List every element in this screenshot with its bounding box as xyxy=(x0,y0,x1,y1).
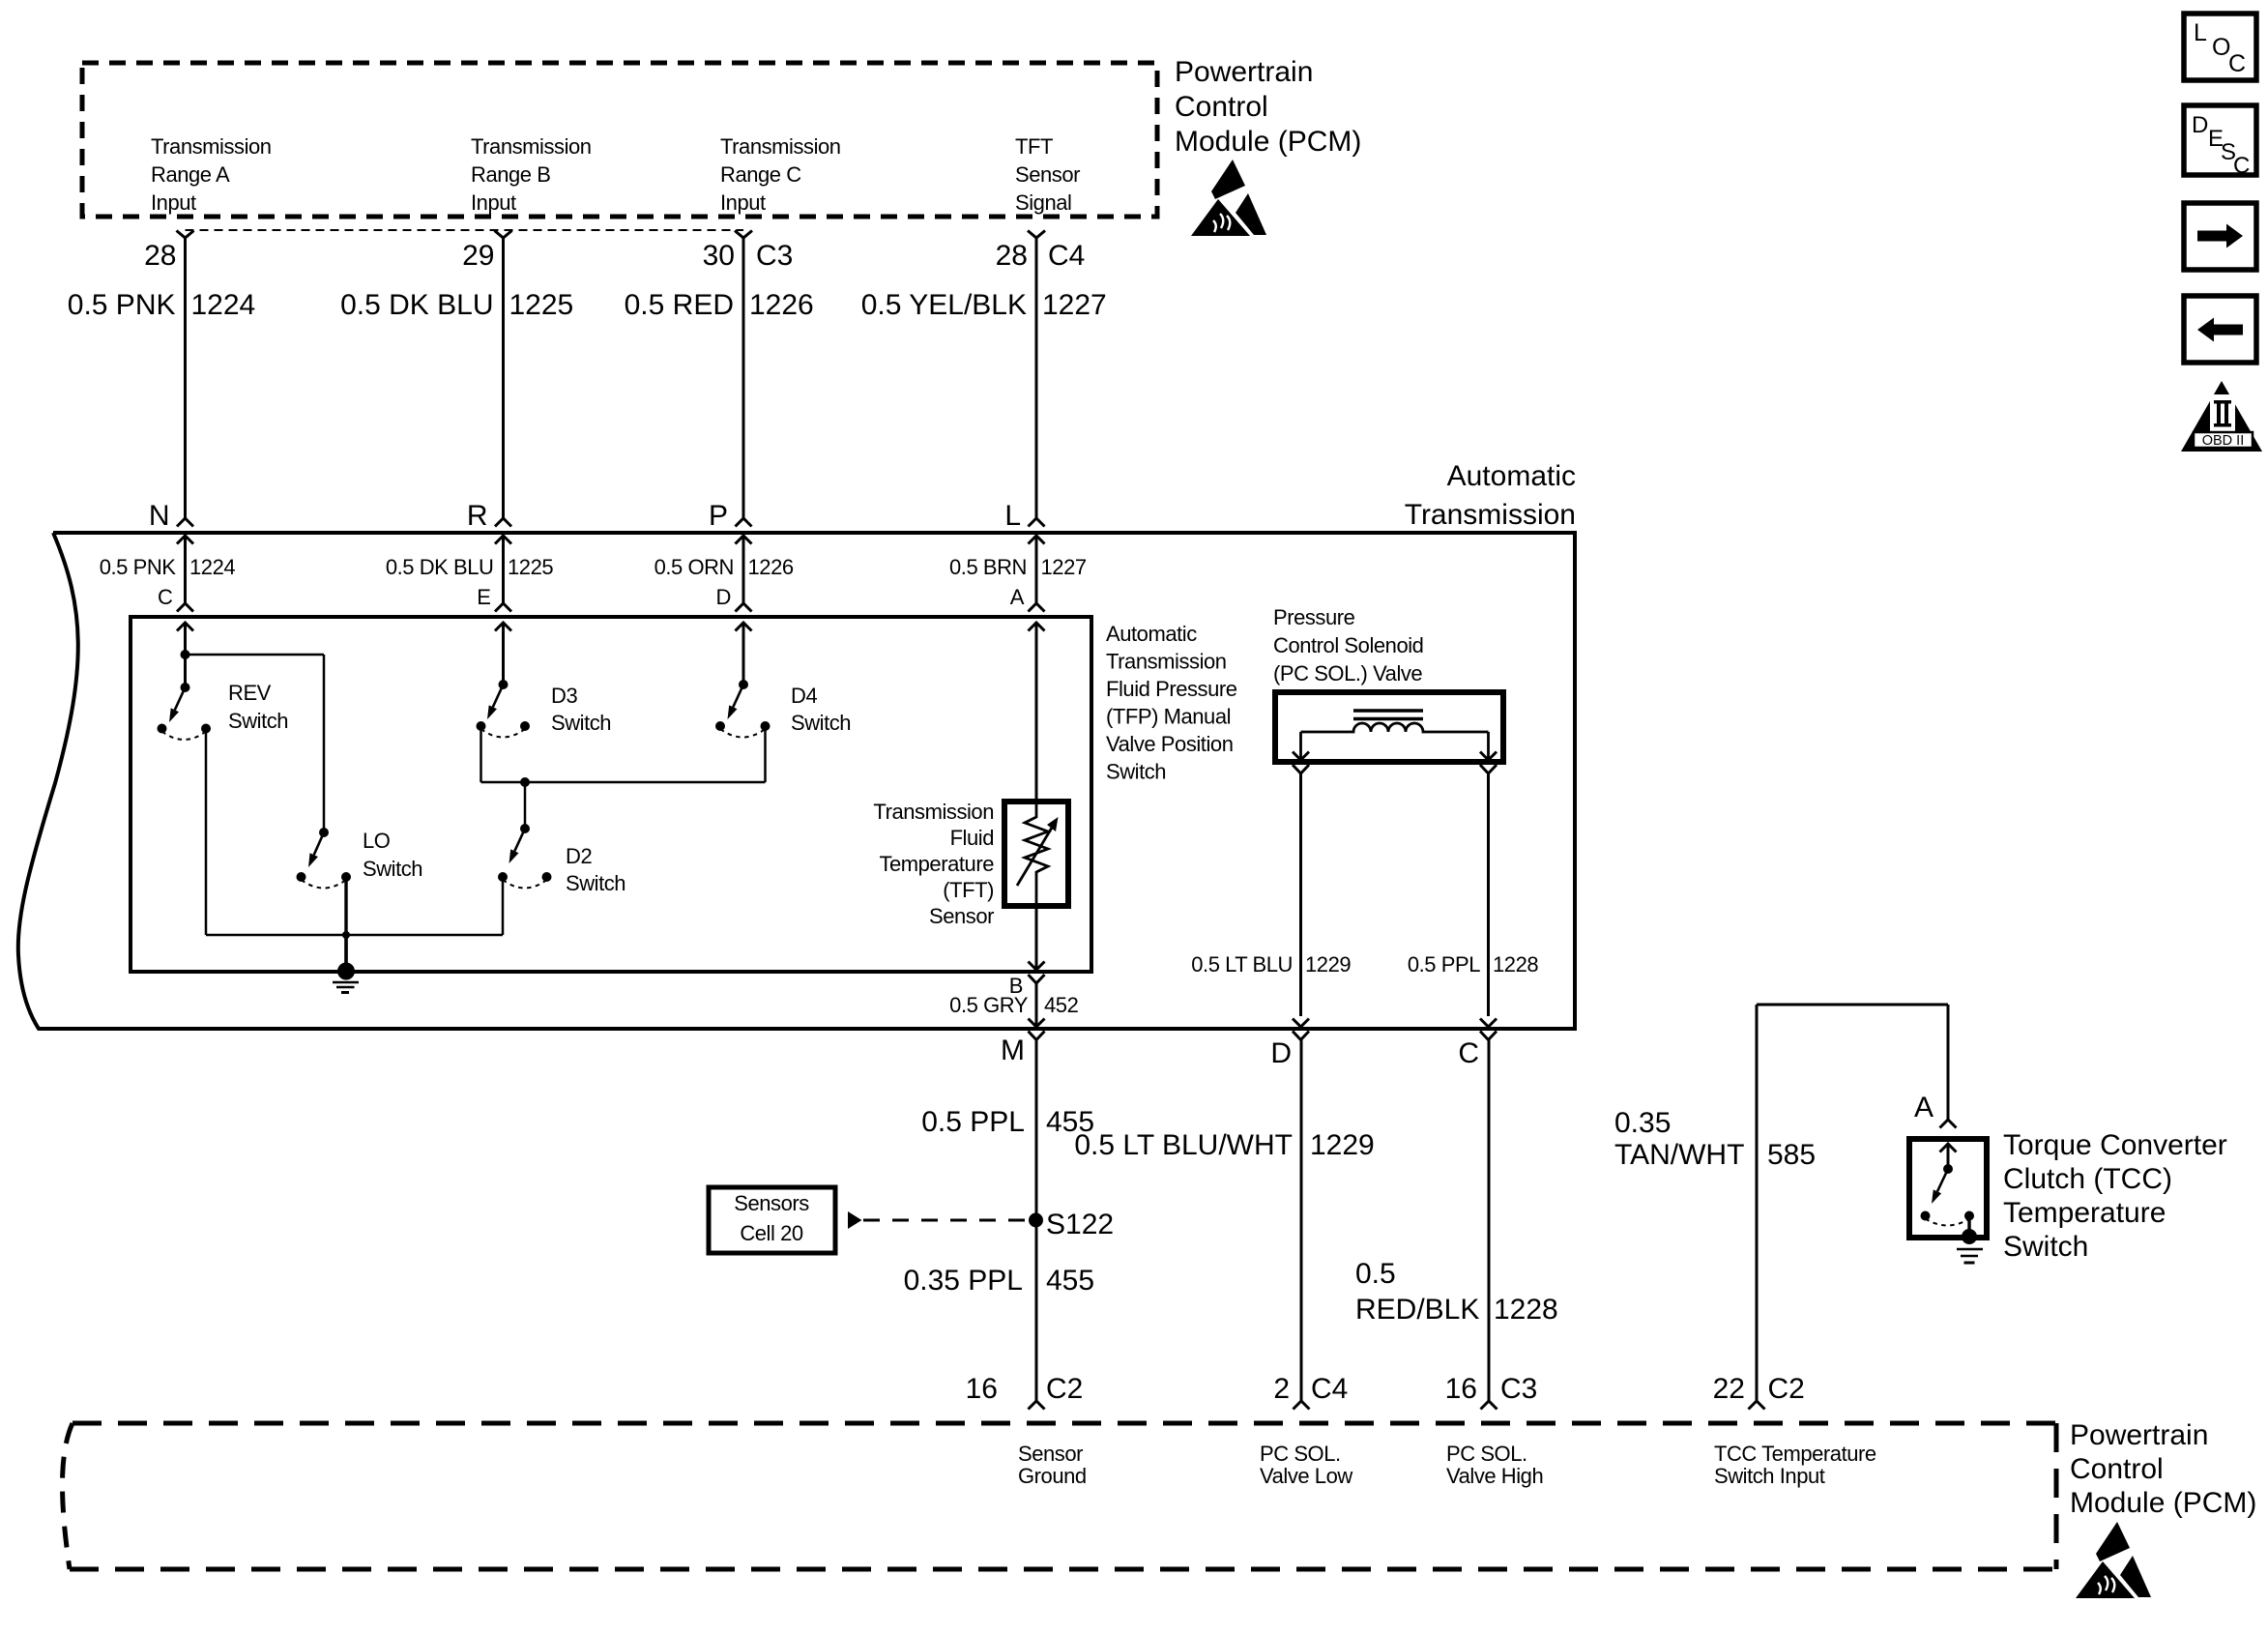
svg-text:N: N xyxy=(149,500,170,532)
svg-text:D: D xyxy=(716,585,731,609)
svg-text:C: C xyxy=(2233,153,2250,179)
svg-text:Input: Input xyxy=(471,190,516,215)
svg-text:30: 30 xyxy=(703,240,735,272)
svg-text:1228: 1228 xyxy=(1494,1294,1558,1326)
svg-text:S122: S122 xyxy=(1046,1209,1114,1240)
svg-text:1227: 1227 xyxy=(1042,289,1107,321)
svg-text:1227: 1227 xyxy=(1041,555,1087,579)
svg-text:R: R xyxy=(467,500,488,532)
svg-text:L: L xyxy=(2194,19,2207,46)
svg-text:Pressure: Pressure xyxy=(1273,605,1355,629)
svg-text:0.35: 0.35 xyxy=(1614,1107,1671,1139)
svg-text:A: A xyxy=(1010,585,1025,609)
svg-text:Input: Input xyxy=(720,190,766,215)
svg-text:Valve Position: Valve Position xyxy=(1106,732,1233,756)
svg-text:Switch: Switch xyxy=(2003,1231,2088,1263)
svg-text:Control: Control xyxy=(1175,91,1268,123)
svg-text:C: C xyxy=(1458,1037,1479,1069)
svg-text:TFT: TFT xyxy=(1015,134,1053,159)
svg-text:A: A xyxy=(1914,1092,1934,1123)
svg-text:Fluid: Fluid xyxy=(950,826,994,850)
svg-text:1225: 1225 xyxy=(508,555,553,579)
svg-text:0.5 PNK: 0.5 PNK xyxy=(68,289,176,321)
svg-text:Transmission: Transmission xyxy=(873,800,994,824)
svg-text:Range A: Range A xyxy=(151,162,230,187)
svg-text:Powertrain: Powertrain xyxy=(2070,1419,2208,1451)
svg-text:Torque Converter: Torque Converter xyxy=(2003,1129,2227,1161)
svg-text:29: 29 xyxy=(462,240,494,272)
svg-text:Switch: Switch xyxy=(791,711,851,735)
svg-text:0.5 ORN: 0.5 ORN xyxy=(654,555,734,579)
svg-text:Transmission: Transmission xyxy=(720,134,841,159)
svg-text:D: D xyxy=(1270,1037,1292,1069)
svg-text:28: 28 xyxy=(144,240,176,272)
svg-text:Transmission: Transmission xyxy=(151,134,272,159)
svg-text:Range C: Range C xyxy=(720,162,801,187)
svg-text:16: 16 xyxy=(1445,1373,1477,1405)
svg-text:C3: C3 xyxy=(1500,1373,1537,1405)
svg-text:Switch: Switch xyxy=(363,857,422,881)
svg-text:452: 452 xyxy=(1044,993,1079,1017)
svg-text:C3: C3 xyxy=(756,240,793,272)
svg-text:RED/BLK: RED/BLK xyxy=(1355,1294,1479,1326)
svg-text:Control: Control xyxy=(2070,1453,2164,1485)
svg-text:0.5: 0.5 xyxy=(1355,1258,1396,1290)
svg-text:1229: 1229 xyxy=(1310,1129,1375,1161)
svg-text:D3: D3 xyxy=(551,684,577,708)
svg-text:Fluid Pressure: Fluid Pressure xyxy=(1106,677,1237,701)
svg-text:TCC Temperature: TCC Temperature xyxy=(1714,1442,1876,1466)
svg-text:C2: C2 xyxy=(1768,1373,1805,1405)
svg-text:PC SOL.: PC SOL. xyxy=(1446,1442,1527,1466)
svg-text:TAN/WHT: TAN/WHT xyxy=(1614,1139,1744,1171)
svg-text:Valve High: Valve High xyxy=(1446,1464,1543,1488)
svg-text:Cell 20: Cell 20 xyxy=(740,1221,803,1245)
svg-text:Transmission: Transmission xyxy=(1106,650,1227,674)
svg-text:1228: 1228 xyxy=(1493,952,1538,977)
svg-text:455: 455 xyxy=(1046,1265,1094,1297)
svg-text:L: L xyxy=(1004,500,1021,532)
svg-text:C: C xyxy=(158,585,173,609)
svg-text:Sensors: Sensors xyxy=(734,1191,809,1215)
svg-text:Transmission: Transmission xyxy=(1405,499,1576,531)
svg-text:Range B: Range B xyxy=(471,162,550,187)
svg-text:0.35 PPL: 0.35 PPL xyxy=(904,1265,1023,1297)
svg-text:E: E xyxy=(477,585,490,609)
svg-text:(PC SOL.) Valve: (PC SOL.) Valve xyxy=(1273,661,1422,685)
svg-text:C2: C2 xyxy=(1046,1373,1083,1405)
svg-text:2: 2 xyxy=(1273,1373,1290,1405)
svg-text:1226: 1226 xyxy=(749,289,814,321)
svg-text:D: D xyxy=(2192,112,2208,138)
svg-text:Switch: Switch xyxy=(228,709,288,733)
svg-text:OBD II: OBD II xyxy=(2202,433,2245,449)
svg-text:D2: D2 xyxy=(566,844,592,868)
svg-text:0.5 GRY: 0.5 GRY xyxy=(949,993,1029,1017)
svg-text:28: 28 xyxy=(996,240,1028,272)
svg-text:LO: LO xyxy=(363,829,391,853)
svg-text:0.5 PNK: 0.5 PNK xyxy=(100,555,177,579)
svg-text:Switch: Switch xyxy=(551,711,611,735)
svg-text:Sensor: Sensor xyxy=(1018,1442,1083,1466)
svg-text:Signal: Signal xyxy=(1015,190,1071,215)
svg-text:Sensor: Sensor xyxy=(929,904,994,928)
svg-text:Sensor: Sensor xyxy=(1015,162,1080,187)
svg-text:0.5 PPL: 0.5 PPL xyxy=(1408,952,1480,977)
svg-text:Module (PCM): Module (PCM) xyxy=(1175,126,1361,158)
svg-text:Switch Input: Switch Input xyxy=(1714,1464,1825,1488)
svg-text:Temperature: Temperature xyxy=(879,852,994,876)
svg-text:PC SOL.: PC SOL. xyxy=(1260,1442,1341,1466)
svg-text:1229: 1229 xyxy=(1305,952,1351,977)
svg-text:Switch: Switch xyxy=(1106,760,1166,784)
svg-text:REV: REV xyxy=(228,681,272,705)
svg-text:0.5 LT BLU: 0.5 LT BLU xyxy=(1191,952,1293,977)
svg-text:16: 16 xyxy=(966,1373,998,1405)
svg-text:0.5 PPL: 0.5 PPL xyxy=(921,1106,1025,1138)
svg-text:Automatic: Automatic xyxy=(1447,460,1576,492)
svg-text:1225: 1225 xyxy=(509,289,574,321)
svg-text:0.5 RED: 0.5 RED xyxy=(625,289,734,321)
svg-text:Temperature: Temperature xyxy=(2003,1197,2166,1229)
svg-text:0.5 BRN: 0.5 BRN xyxy=(949,555,1027,579)
svg-text:Powertrain: Powertrain xyxy=(1175,56,1313,88)
svg-text:Input: Input xyxy=(151,190,196,215)
svg-text:Module (PCM): Module (PCM) xyxy=(2070,1487,2256,1519)
svg-text:Transmission: Transmission xyxy=(471,134,592,159)
svg-text:1224: 1224 xyxy=(191,289,256,321)
svg-text:0.5 DK BLU: 0.5 DK BLU xyxy=(340,289,493,321)
svg-text:1226: 1226 xyxy=(748,555,794,579)
svg-text:P: P xyxy=(709,500,728,532)
svg-text:0.5 LT BLU/WHT: 0.5 LT BLU/WHT xyxy=(1074,1129,1293,1161)
svg-text:D4: D4 xyxy=(791,684,817,708)
svg-text:M: M xyxy=(1001,1035,1025,1066)
svg-text:(TFT): (TFT) xyxy=(943,878,994,902)
svg-text:Switch: Switch xyxy=(566,871,625,895)
svg-text:585: 585 xyxy=(1767,1139,1816,1171)
svg-text:0.5 DK BLU: 0.5 DK BLU xyxy=(386,555,494,579)
svg-text:C4: C4 xyxy=(1311,1373,1348,1405)
svg-text:C4: C4 xyxy=(1048,240,1085,272)
svg-text:0.5 YEL/BLK: 0.5 YEL/BLK xyxy=(861,289,1027,321)
svg-text:1224: 1224 xyxy=(189,555,235,579)
svg-text:22: 22 xyxy=(1713,1373,1745,1405)
svg-text:Control Solenoid: Control Solenoid xyxy=(1273,633,1423,657)
svg-text:C: C xyxy=(2228,50,2246,77)
svg-text:Automatic: Automatic xyxy=(1106,622,1197,646)
svg-text:Valve Low: Valve Low xyxy=(1260,1464,1352,1488)
svg-text:Ground: Ground xyxy=(1018,1464,1087,1488)
svg-text:(TFP) Manual: (TFP) Manual xyxy=(1106,705,1231,729)
svg-text:Clutch (TCC): Clutch (TCC) xyxy=(2003,1163,2172,1195)
